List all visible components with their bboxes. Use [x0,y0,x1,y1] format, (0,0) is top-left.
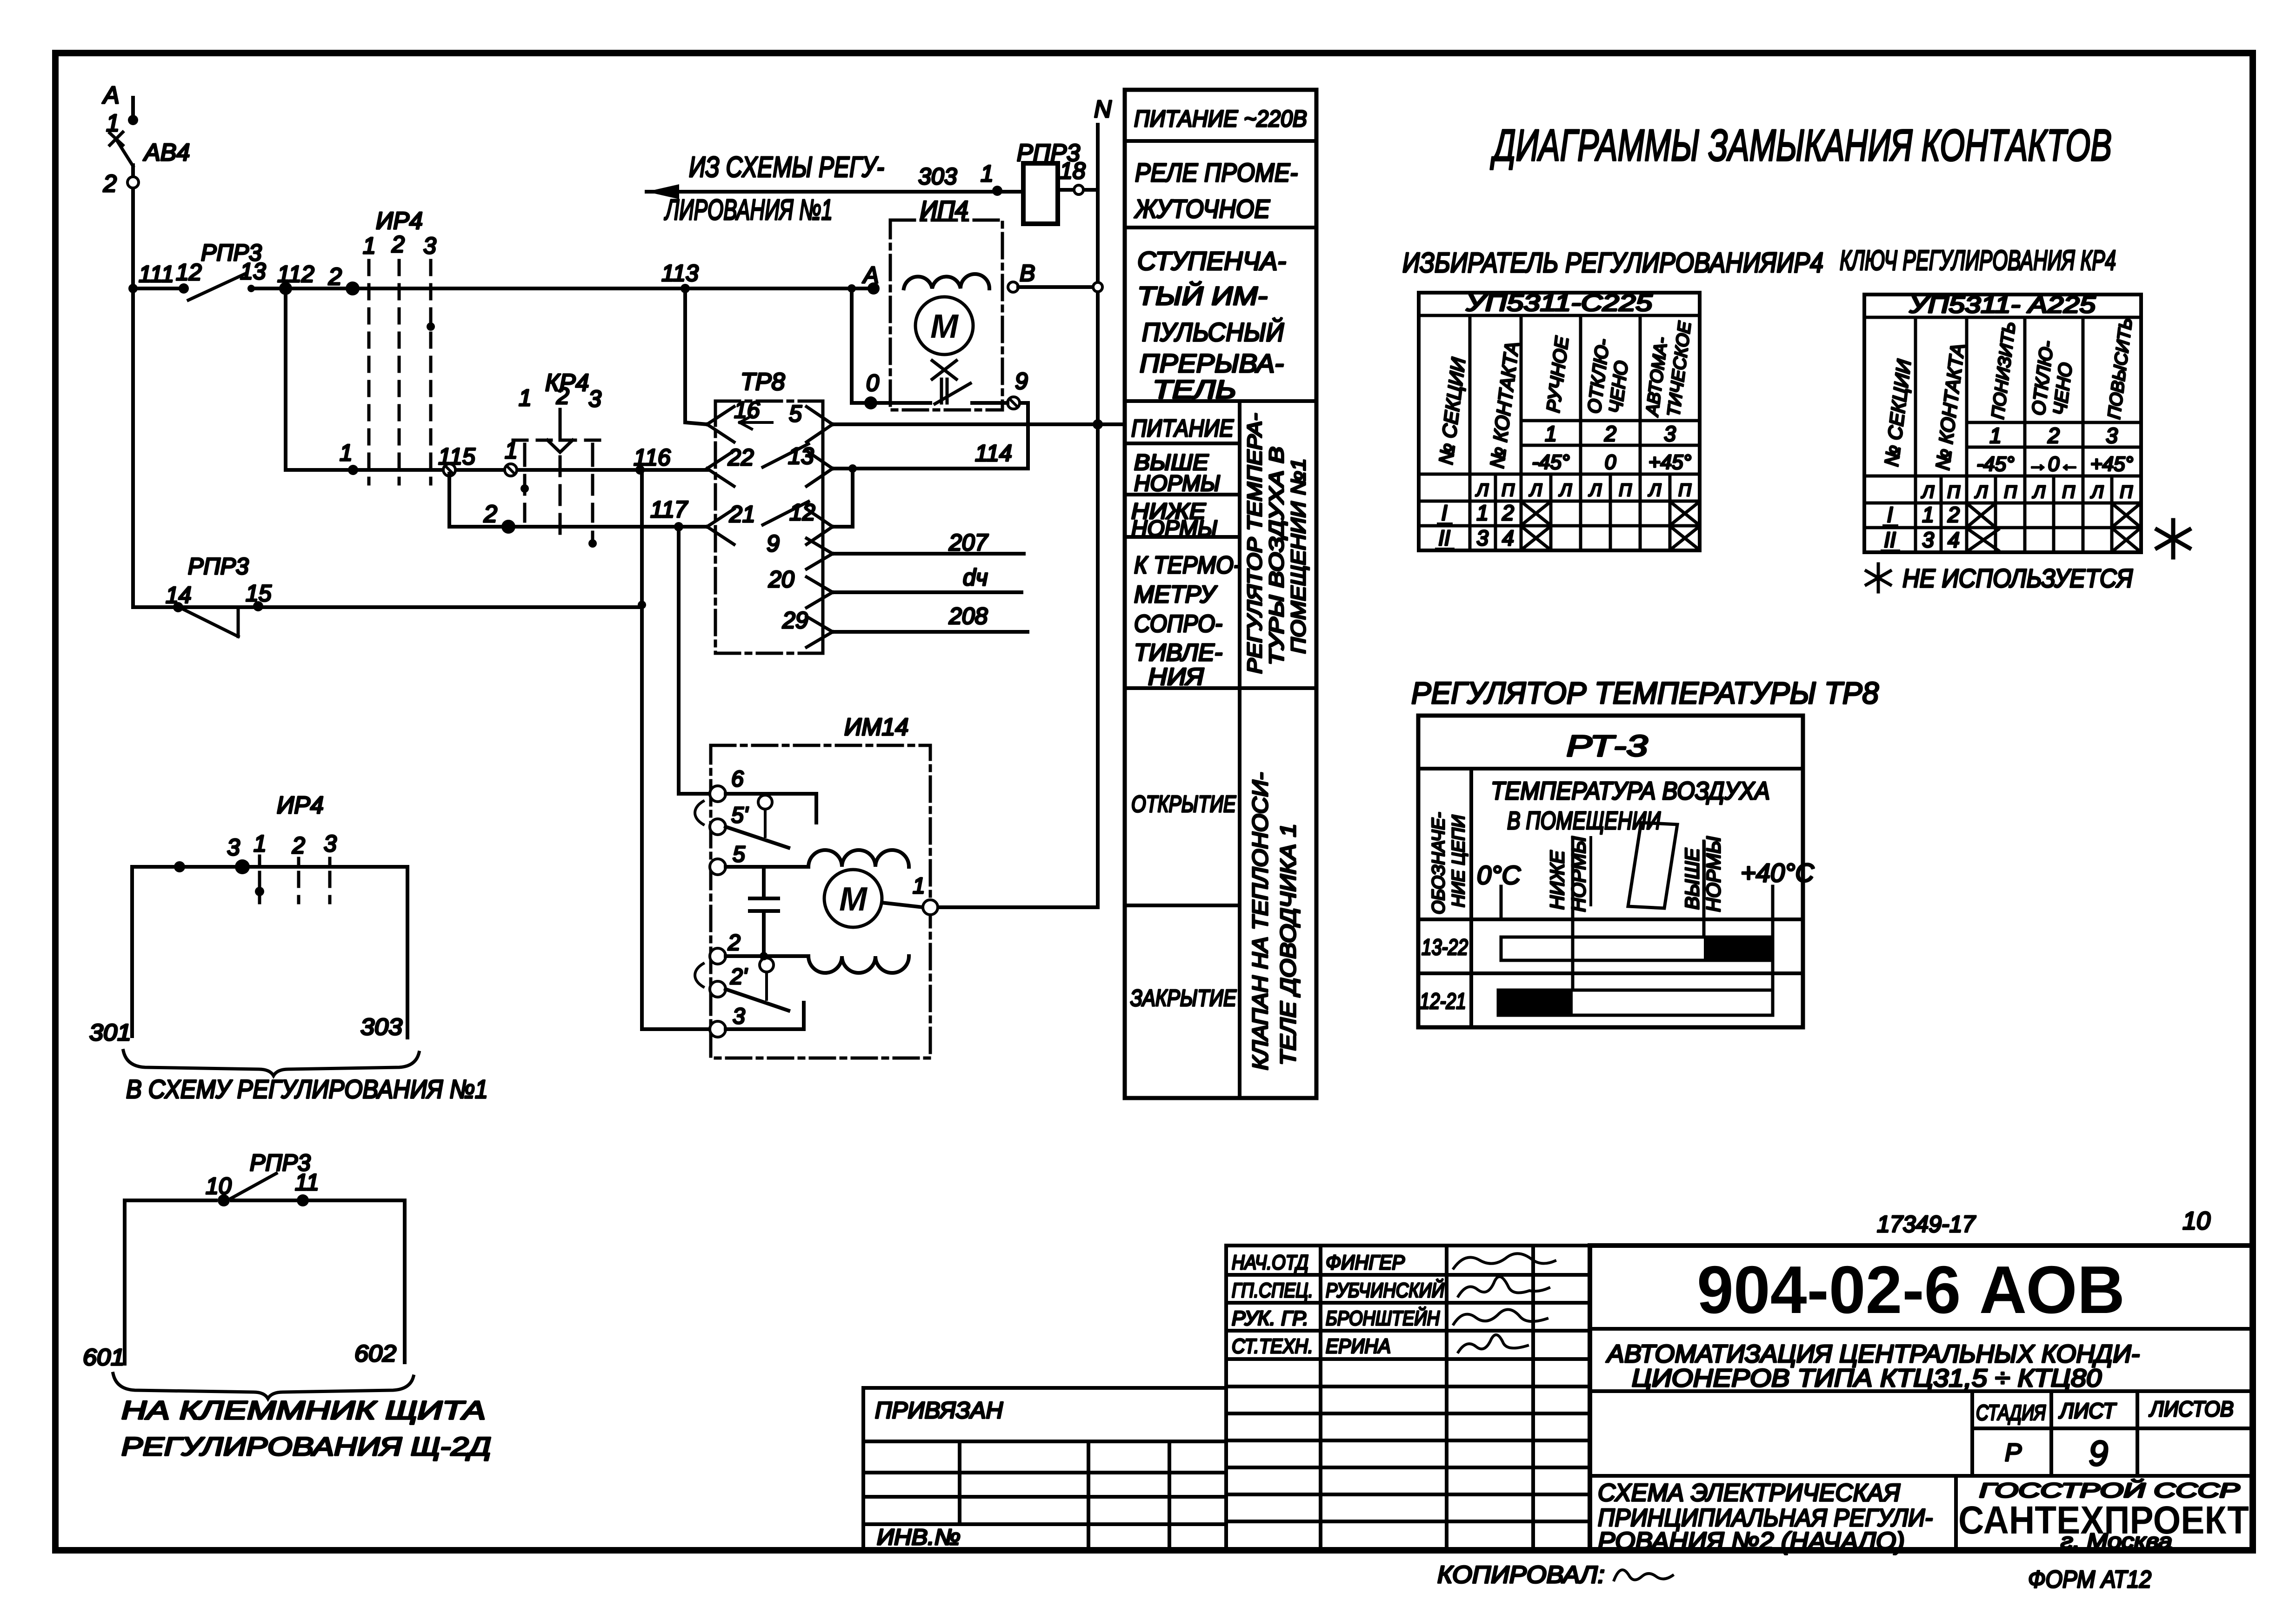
svg-text:А: А [102,82,120,109]
svg-text:2: 2 [328,263,342,290]
svg-text:НА КЛЕММНИК ЩИТА: НА КЛЕММНИК ЩИТА [121,1395,486,1425]
svg-text:НОРМЫ: НОРМЫ [1568,836,1589,912]
svg-text:Л: Л [1528,481,1542,500]
svg-text:ИНВ.№: ИНВ.№ [877,1525,961,1550]
svg-text:НИЯ: НИЯ [1148,663,1204,690]
svg-text:НОРМЫ: НОРМЫ [1702,836,1724,912]
svg-text:3: 3 [2106,423,2118,448]
svg-text:5': 5' [731,803,749,828]
svg-text:ТЕЛЬ: ТЕЛЬ [1153,375,1236,404]
svg-text:ОТКРЫТИЕ: ОТКРЫТИЕ [1131,791,1236,817]
svg-text:М: М [839,881,868,918]
svg-text:-45°: -45° [1532,451,1569,474]
svg-text:СТАДИЯ: СТАДИЯ [1976,1400,2046,1425]
svg-text:1: 1 [363,233,376,259]
svg-text:1: 1 [106,110,120,137]
svg-text:ТИВЛЕ-: ТИВЛЕ- [1134,639,1222,666]
svg-text:II: II [1884,528,1896,552]
svg-text:Л: Л [1558,481,1572,500]
svg-text:КЛЮЧ РЕГУЛИРОВАНИЯ КР4: КЛЮЧ РЕГУЛИРОВАНИЯ КР4 [1840,245,2116,276]
svg-text:dч: dч [963,564,988,590]
svg-text:РЕЛЕ ПРОМЕ-: РЕЛЕ ПРОМЕ- [1135,158,1298,187]
svg-text:9: 9 [1015,368,1028,394]
svg-text:Л: Л [1475,481,1489,500]
svg-text:3: 3 [1476,526,1488,550]
svg-text:СТ.ТЕХН.: СТ.ТЕХН. [1232,1335,1313,1358]
svg-text:2: 2 [728,931,741,955]
svg-text:ПРИВЯЗАН: ПРИВЯЗАН [875,1397,1003,1423]
svg-text:1: 1 [913,874,925,898]
svg-text:РУБЧИНСКИЙ: РУБЧИНСКИЙ [1326,1278,1444,1302]
svg-text:НЕ ИСПОЛЬЗУЕТСЯ: НЕ ИСПОЛЬЗУЕТСЯ [1902,563,2133,593]
svg-text:4: 4 [1948,528,1960,552]
svg-text:2: 2 [1604,422,1616,446]
svg-text:18: 18 [1060,158,1086,184]
svg-text:16: 16 [734,397,760,423]
svg-text:602: 602 [354,1340,396,1366]
svg-text:111: 111 [139,261,174,287]
svg-text:ТЕМПЕРАТУРА ВОЗДУХА: ТЕМПЕРАТУРА ВОЗДУХА [1491,777,1770,805]
svg-text:ЗАКРЫТИЕ: ЗАКРЫТИЕ [1130,985,1237,1011]
svg-text:116: 116 [634,444,671,470]
svg-text:ИЗ СХЕМЫ РЕГУ-: ИЗ СХЕМЫ РЕГУ- [689,151,884,183]
svg-text:НОРМЫ: НОРМЫ [1131,516,1217,541]
svg-text:0°С: 0°С [1477,860,1521,890]
svg-text:В СХЕМУ РЕГУЛИРОВАНИЯ №1: В СХЕМУ РЕГУЛИРОВАНИЯ №1 [126,1074,488,1104]
svg-text:5: 5 [733,842,745,867]
svg-text:301: 301 [89,1019,131,1045]
svg-text:М: М [930,308,959,345]
svg-text:1: 1 [340,440,353,466]
svg-text:ЛИРОВАНИЯ №1: ЛИРОВАНИЯ №1 [664,194,833,226]
svg-text:2: 2 [1947,502,1960,527]
svg-text:НАЧ.ОТД: НАЧ.ОТД [1232,1251,1308,1274]
svg-text:АВТОМАТИЗАЦИЯ ЦЕНТРАЛЬНЫХ К: АВТОМАТИЗАЦИЯ ЦЕНТРАЛЬНЫХ КОНДИ- [1606,1340,2140,1368]
svg-text:904-02-6 АОВ: 904-02-6 АОВ [1697,1252,2125,1327]
svg-text:303: 303 [918,163,957,189]
svg-text:1: 1 [254,831,267,857]
svg-text:СОПРО-: СОПРО- [1134,610,1222,637]
svg-text:П: П [2120,482,2133,502]
svg-text:10: 10 [2183,1207,2210,1235]
svg-text:207: 207 [948,529,989,556]
svg-text:ЕРИНА: ЕРИНА [1326,1335,1391,1358]
svg-text:Л: Л [1588,481,1602,500]
svg-text:ФОРМ АТ12: ФОРМ АТ12 [2028,1566,2151,1593]
svg-text:2: 2 [1502,501,1514,525]
svg-text:1: 1 [1989,423,2002,448]
svg-text:П: П [1678,481,1691,500]
svg-text:+40°С: +40°С [1741,858,1814,887]
svg-text:Л: Л [2090,482,2104,502]
svg-text:ИР4: ИР4 [277,792,324,819]
svg-text:3: 3 [423,233,436,259]
svg-text:601: 601 [83,1344,125,1370]
svg-text:1: 1 [1476,501,1488,525]
svg-text:ТЫЙ ИМ-: ТЫЙ ИМ- [1137,281,1268,310]
svg-text:П: П [1947,482,1960,502]
svg-text:3: 3 [1664,422,1676,446]
svg-text:115: 115 [438,443,475,469]
svg-text:9: 9 [767,530,780,556]
svg-text:ЦИОНЕРОВ ТИПА КТЦ31,5 ÷ КТЦ8: ЦИОНЕРОВ ТИПА КТЦ31,5 ÷ КТЦ80 [1632,1364,2102,1392]
svg-text:5: 5 [789,401,802,427]
svg-text:АВ4: АВ4 [143,139,190,166]
svg-text:ВЫШЕ: ВЫШЕ [1681,848,1703,910]
svg-text:1: 1 [1922,502,1934,527]
svg-text:РЕГУЛЯТОР ТЕМПЕРАТУРЫ ТР8: РЕГУЛЯТОР ТЕМПЕРАТУРЫ ТР8 [1411,676,1879,710]
svg-text:ПРЕРЫВА-: ПРЕРЫВА- [1140,348,1284,378]
svg-text:В: В [1020,260,1035,286]
svg-text:ОБОЗНАЧЕ-: ОБОЗНАЧЕ- [1429,812,1448,914]
svg-text:СХЕМА ЭЛЕКТРИЧЕСКАЯ: СХЕМА ЭЛЕКТРИЧЕСКАЯ [1598,1479,1901,1507]
svg-text:6: 6 [731,767,744,791]
svg-text:КЛАПАН НА ТЕПЛОНОСИ-: КЛАПАН НА ТЕПЛОНОСИ- [1248,772,1272,1070]
svg-text:П: П [2062,482,2075,502]
svg-text:ФИНГЕР: ФИНГЕР [1326,1251,1405,1274]
svg-text:2: 2 [483,501,497,528]
svg-text:17349-17: 17349-17 [1877,1211,1976,1237]
svg-text:2': 2' [730,965,748,989]
svg-text:208: 208 [948,603,988,629]
svg-text:22: 22 [728,444,754,470]
svg-text:УП5311-С225: УП5311-С225 [1466,290,1653,316]
svg-text:→0←: →0← [2028,453,2080,476]
svg-text:Л: Л [1921,482,1935,502]
svg-text:114: 114 [975,440,1012,466]
svg-text:113: 113 [661,260,699,286]
svg-text:+45°: +45° [1649,451,1691,474]
svg-text:Л: Л [2032,482,2046,502]
svg-text:ПИТАНИЕ: ПИТАНИЕ [1131,415,1234,442]
svg-text:4: 4 [1502,526,1514,550]
svg-text:ТУРЫ ВОЗДУХА В: ТУРЫ ВОЗДУХА В [1265,447,1288,665]
svg-text:ЖУТОЧНОЕ: ЖУТОЧНОЕ [1134,194,1270,223]
svg-text:П: П [1619,481,1632,500]
svg-text:10: 10 [206,1173,232,1199]
svg-text:ИР4: ИР4 [376,208,423,234]
svg-text:0: 0 [1605,451,1616,474]
svg-text:+45°: +45° [2090,453,2133,476]
svg-text:II: II [1438,526,1450,550]
svg-text:N: N [1094,96,1112,123]
svg-text:РТ-3: РТ-3 [1567,729,1649,763]
svg-text:11: 11 [295,1169,319,1195]
svg-text:3: 3 [733,1004,745,1029]
svg-text:Л: Л [1648,481,1662,500]
svg-text:Р: Р [2005,1439,2022,1467]
svg-text:2: 2 [103,170,117,197]
svg-text:3: 3 [588,386,601,412]
svg-text:ПОМЕЩЕНИИ №1: ПОМЕЩЕНИИ №1 [1287,458,1310,654]
svg-text:ЛИСТ: ЛИСТ [2058,1399,2117,1423]
svg-text:12-21: 12-21 [1420,989,1466,1014]
svg-text:117: 117 [650,496,688,522]
svg-text:3: 3 [1922,528,1934,552]
svg-text:21: 21 [729,501,755,527]
svg-text:112: 112 [277,261,314,287]
svg-text:ГП.СПЕЦ.: ГП.СПЕЦ. [1232,1279,1313,1302]
svg-text:РПР3: РПР3 [188,553,249,579]
svg-text:2: 2 [292,832,305,858]
svg-text:I: I [1887,502,1893,527]
svg-text:Л: Л [1974,482,1988,502]
svg-text:20: 20 [768,566,794,592]
svg-text:303: 303 [360,1014,402,1040]
svg-text:0: 0 [866,370,879,396]
svg-text:РЕГУЛЯТОР ТЕМПЕРА-: РЕГУЛЯТОР ТЕМПЕРА- [1243,413,1266,674]
svg-text:РУК. ГР.: РУК. ГР. [1232,1307,1308,1330]
svg-text:-45°: -45° [1976,453,2014,476]
svg-text:I: I [1442,501,1448,525]
svg-text:ТЕЛЕ ДОВОДЧИКА 1: ТЕЛЕ ДОВОДЧИКА 1 [1276,824,1300,1065]
svg-text:УП5311- А225: УП5311- А225 [1909,292,2096,318]
svg-text:13: 13 [240,258,266,284]
svg-text:МЕТРУ: МЕТРУ [1134,581,1218,608]
svg-text:3: 3 [227,834,240,860]
svg-text:П: П [2004,482,2017,502]
svg-text:БРОНШТЕЙН: БРОНШТЕЙН [1326,1306,1440,1330]
svg-text:РЕГУЛИРОВАНИЯ Щ-2Д: РЕГУЛИРОВАНИЯ Щ-2Д [121,1432,491,1461]
svg-text:НИЕ ЦЕПИ: НИЕ ЦЕПИ [1449,815,1468,907]
svg-text:9: 9 [2089,1434,2108,1474]
svg-text:1: 1 [519,385,532,411]
svg-text:2: 2 [2047,423,2060,448]
svg-text:СТУПЕНЧА-: СТУПЕНЧА- [1137,246,1286,275]
svg-text:П: П [1502,481,1515,500]
svg-text:г. Москва: г. Москва [2061,1529,2172,1553]
svg-text:2: 2 [556,383,569,409]
svg-text:29: 29 [782,607,808,633]
svg-text:А: А [862,262,879,288]
svg-text:ИЗБИРАТЕЛЬ РЕГУЛИРОВАНИЯИР4: ИЗБИРАТЕЛЬ РЕГУЛИРОВАНИЯИР4 [1402,247,1823,278]
svg-text:1: 1 [1545,422,1557,446]
svg-text:КОПИРОВАЛ:: КОПИРОВАЛ: [1437,1561,1605,1588]
svg-text:12: 12 [176,259,202,285]
svg-text:НИЖЕ: НИЖЕ [1546,850,1568,910]
svg-text:НОРМЫ: НОРМЫ [1134,471,1220,496]
svg-text:2: 2 [391,231,405,257]
svg-text:ПУЛЬСНЫЙ: ПУЛЬСНЫЙ [1142,317,1284,347]
svg-text:ЛИСТОВ: ЛИСТОВ [2149,1397,2234,1421]
svg-text:ТР8: ТР8 [741,368,785,395]
svg-text:3: 3 [324,831,337,857]
svg-text:В ПОМЕЩЕНИИ: В ПОМЕЩЕНИИ [1507,807,1661,835]
svg-text:К ТЕРМО-: К ТЕРМО- [1134,552,1241,579]
svg-text:ДИАГРАММЫ ЗАМЫКАНИЯ КОНТАКТО: ДИАГРАММЫ ЗАМЫКАНИЯ КОНТАКТОВ [1490,121,2112,170]
svg-text:13-22: 13-22 [1422,935,1468,960]
svg-text:ПИТАНИЕ ~220В: ПИТАНИЕ ~220В [1134,106,1307,132]
svg-text:ИМ14: ИМ14 [844,714,908,741]
svg-text:РОВАНИЯ №2 (НАЧАЛО): РОВАНИЯ №2 (НАЧАЛО) [1598,1527,1905,1555]
svg-text:1: 1 [981,161,994,187]
